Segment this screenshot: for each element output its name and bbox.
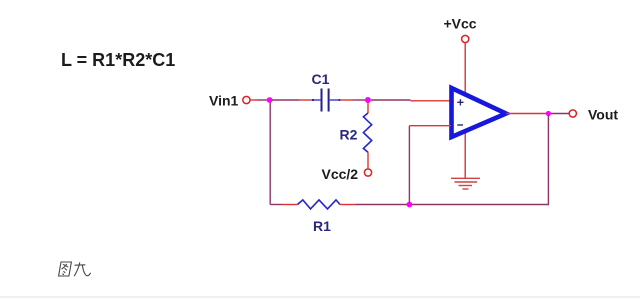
svg-text:R1: R1 [313,218,331,234]
wire feedback: junction C down to bottom rail [547,115,549,205]
terminal Vout [569,110,576,117]
terminal +Vcc [462,35,469,42]
wire left vertical: junction A down to bottom rail [269,103,271,205]
wire +Vcc to op-amp V+ pin [464,43,466,96]
ground [451,178,480,189]
capacitor C1 [312,89,341,112]
wire op-amp V- pin stub to ground (upper part, under triangle) [464,130,466,178]
svg-text:L = R1*R2*C1: L = R1*R2*C1 [61,50,175,70]
wire Vin1 to junction A [250,99,268,101]
op-amp U1 [452,88,507,137]
junction C (output node) [546,111,551,116]
svg-text:R2: R2 [340,127,358,143]
wire junction B to op-amp + pin [371,99,450,102]
wire to op-amp - pin [409,125,451,127]
wire junction C to Vout terminal [551,113,569,115]
caption 图九 (figure nine) [59,262,91,276]
svg-text:Vout: Vout [588,107,618,123]
wire bottom rail left to R1 [270,204,297,206]
wire op-amp output to junction C [506,113,546,115]
svg-text:Vcc/2: Vcc/2 [322,166,359,182]
junction A (Vin1 node / feedback tap) [267,97,273,103]
resistor R1 [298,200,341,209]
wire C1 right pin to junction B [340,99,366,101]
terminal Vcc/2 [364,169,371,176]
resistor R2 [363,103,371,169]
junction B (C1 / R2 / op-amp + node) [365,97,371,103]
wire bottom rail right segment [412,204,549,206]
terminal Vin1 [243,96,250,103]
svg-text:C1: C1 [312,71,330,87]
svg-text:+Vcc: +Vcc [444,16,477,32]
wire junction A to C1 left pin [272,99,313,101]
bottom separator line [0,297,640,298]
wire R1 right pin to junction D [340,204,407,206]
junction D (inverting input node on bottom rail) [407,202,413,208]
wire junction D up to - input [408,126,410,202]
svg-text:Vin1: Vin1 [209,93,239,109]
